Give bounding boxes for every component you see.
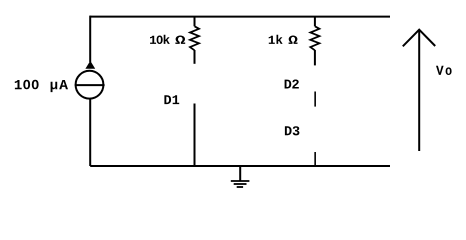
label uA unit bbox=[51, 80, 68, 92]
label ohm R2 bbox=[289, 36, 298, 44]
wire top rail bbox=[90, 16, 390, 18]
current source I1 circle bbox=[76, 71, 104, 99]
Vo arrowhead bbox=[403, 30, 435, 47]
resistor R1 zigzag bbox=[190, 26, 199, 50]
label 10k bbox=[150, 35, 170, 44]
ground bar 2 bbox=[234, 183, 247, 185]
ground bar 1 bbox=[231, 180, 250, 182]
label D2 bbox=[285, 80, 299, 89]
label Vo bbox=[436, 66, 452, 75]
resistor R2 zigzag bbox=[310, 26, 319, 50]
label 1k bbox=[269, 35, 283, 44]
resistor R2 lead top bbox=[314, 17, 316, 27]
resistor R2 lead bottom bbox=[314, 50, 316, 65]
label D1 bbox=[164, 95, 179, 104]
diode D3 stub bbox=[314, 152, 316, 166]
label 100 bbox=[15, 80, 39, 90]
current source I1 arrowhead bbox=[85, 61, 95, 69]
ground stub bbox=[239, 166, 241, 181]
Vo arrow shaft bbox=[418, 30, 420, 151]
ground bar 3 bbox=[237, 186, 243, 188]
diode D1 wire bbox=[194, 104, 196, 167]
diode D2 segment bbox=[314, 92, 316, 107]
label ohm R1 bbox=[175, 36, 185, 44]
current source I1 chord bbox=[75, 84, 105, 86]
label D3 bbox=[285, 126, 300, 135]
wire left branch upper bbox=[89, 16, 91, 62]
resistor R1 lead bottom bbox=[194, 50, 196, 64]
wire left branch lower bbox=[89, 98, 91, 166]
wire bottom rail bbox=[90, 165, 390, 167]
resistor R1 lead top bbox=[194, 17, 196, 27]
